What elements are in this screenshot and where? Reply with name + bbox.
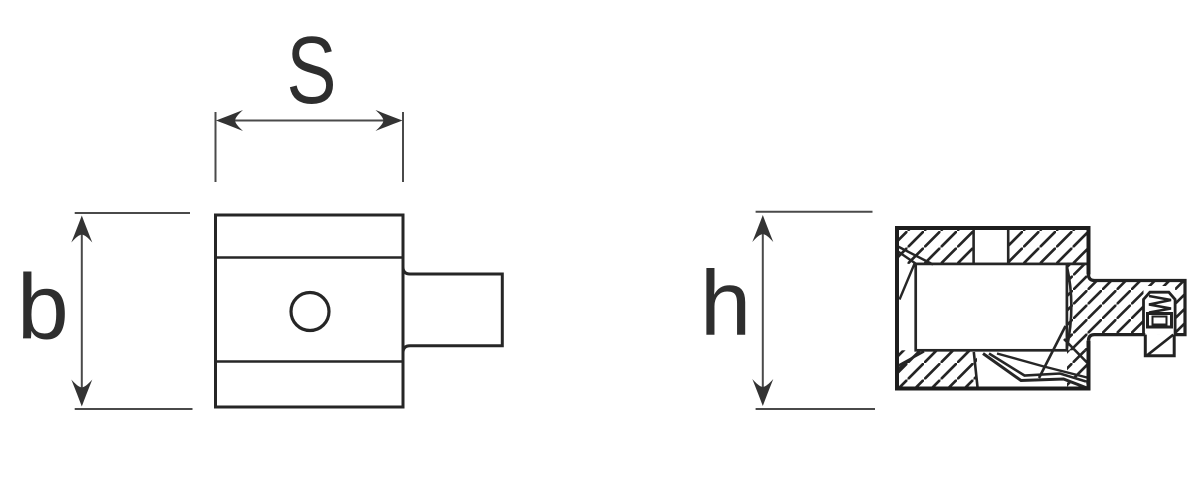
- svg-text:b: b: [17, 255, 69, 359]
- svg-text:S: S: [287, 17, 337, 124]
- svg-text:h: h: [700, 253, 751, 355]
